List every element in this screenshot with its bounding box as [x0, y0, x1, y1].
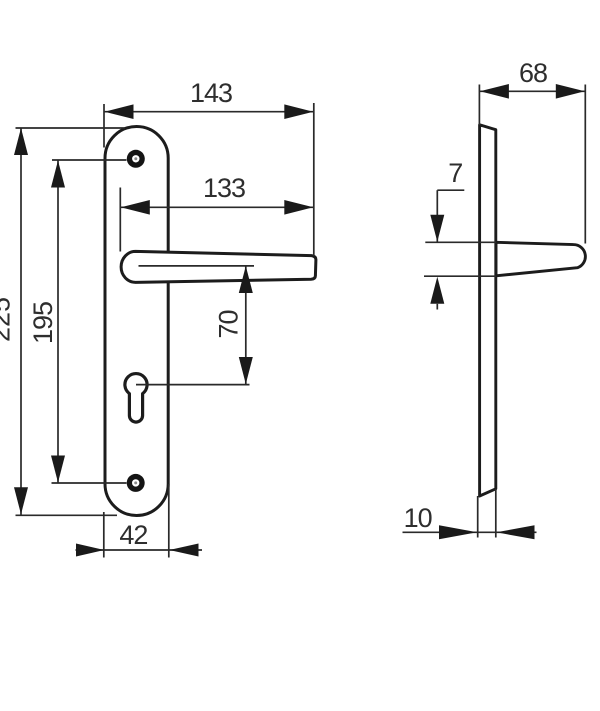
top screw hole [127, 150, 145, 168]
dim 7 line upper [436, 190, 438, 242]
dim 68 extension line right [584, 85, 586, 244]
dim 68 arrow left [480, 84, 509, 99]
dim 195 arrow top [51, 161, 65, 188]
dim 10 extension line left [477, 496, 479, 538]
dim 225 arrow top [14, 128, 28, 155]
dim 143 arrow right [284, 104, 313, 119]
dim 7 extension line top [425, 241, 496, 243]
dim 10 arrow left (outside, pointing right) [439, 525, 477, 539]
keyhole leader line [136, 384, 250, 386]
svg-text:10: 10 [404, 503, 432, 533]
dim 7 arrow lower (pointing up) [430, 277, 444, 304]
dim 7 shelf line [437, 189, 464, 191]
svg-text:68: 68 [519, 58, 547, 88]
dim 42 arrow left (outside, pointing right) [76, 544, 104, 557]
dim 70 arrow bottom [239, 357, 253, 384]
dim 195 line [57, 160, 59, 483]
dim 133 arrow right [284, 200, 313, 215]
dim 42 extension line right [168, 484, 170, 558]
svg-text:7: 7 [448, 158, 462, 188]
dim 42 line [76, 549, 203, 551]
lever inner line [139, 265, 255, 267]
dim 10 arrow right (outside, pointing left) [496, 525, 534, 539]
dim 7 line lower tail [436, 304, 438, 310]
dim 143 arrow left [105, 104, 134, 119]
dim 225 extension line top [16, 127, 126, 129]
dim 225 line [20, 128, 22, 515]
euro cylinder keyhole [125, 374, 147, 423]
dim 7 extension line bottom [424, 275, 496, 277]
svg-text:42: 42 [119, 520, 147, 550]
backplate outline (front view) [105, 127, 168, 516]
svg-text:195: 195 [28, 302, 58, 344]
svg-text:143: 143 [190, 78, 232, 108]
dim 70 line [245, 266, 247, 385]
svg-text:225: 225 [0, 297, 16, 342]
lever handle (side view) [496, 242, 585, 275]
dim 133 arrow left [121, 200, 150, 215]
dim 195 extension line bottom [52, 482, 127, 484]
side plate profile [480, 125, 496, 496]
dim 225 extension line bottom [16, 514, 118, 516]
dim 225 arrow bottom [14, 487, 28, 514]
dim 143 extension line left [103, 104, 105, 148]
dim 195 extension line top [52, 159, 127, 161]
svg-text:70: 70 [214, 310, 244, 338]
dim 10 line [403, 531, 537, 533]
svg-text:133: 133 [203, 173, 245, 203]
dim 7 arrow upper (pointing down) [430, 215, 444, 242]
dim 143 line [104, 111, 314, 113]
dim 42 arrow right (outside, pointing left) [169, 544, 198, 557]
dim 68 line [479, 90, 585, 92]
dim 133 extension line left [119, 188, 121, 252]
dim 133 line [120, 206, 313, 208]
dim 42 extension line left [103, 512, 105, 558]
dim 143/133 extension line right [313, 103, 315, 256]
dim 68 extension line left [478, 85, 480, 126]
bottom screw hole [127, 474, 145, 492]
lever handle (front view) [121, 251, 316, 282]
dim 70 arrow top [239, 266, 253, 293]
dim 10 extension line right [495, 489, 497, 538]
dim 195 arrow bottom [51, 456, 65, 483]
dim 68 arrow right [556, 84, 585, 99]
